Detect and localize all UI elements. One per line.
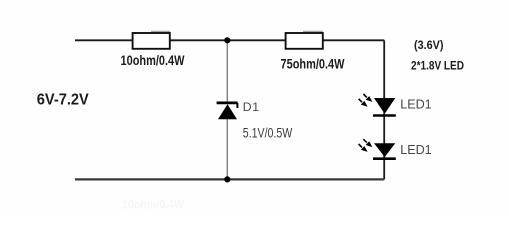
svg-text:LED1: LED1 [400, 143, 432, 157]
svg-text:6V-7.2V: 6V-7.2V [37, 92, 89, 109]
LED LED1 lower [359, 139, 396, 159]
label 6V-7.2V [37, 92, 89, 109]
ghost label 10ohm/0.4W (faint artifact) [122, 198, 185, 212]
zener diode D1 [217, 103, 238, 119]
resistor R2 75ohm [286, 32, 323, 49]
label 2*1.8V LED [411, 59, 464, 73]
label (3.6V) [414, 38, 444, 52]
svg-text:(3.6V): (3.6V) [414, 38, 444, 52]
label LED1 upper [400, 98, 432, 112]
wire right branch [383, 40, 385, 179]
svg-text:LED1: LED1 [400, 98, 432, 112]
LED LED1 upper [359, 94, 396, 116]
wire middle branch upper [226, 40, 228, 102]
svg-text:5.1V/0.5W: 5.1V/0.5W [243, 126, 293, 141]
label 5.1V/0.5W [243, 126, 293, 141]
label D1 [243, 100, 260, 114]
node junction bottom [224, 176, 230, 182]
svg-text:D1: D1 [243, 100, 260, 114]
label 75ohm/0.4W [281, 57, 345, 72]
node junction top [224, 37, 230, 43]
label LED1 lower [400, 143, 432, 157]
svg-text:2*1.8V LED: 2*1.8V LED [411, 59, 464, 73]
wire bottom rail [75, 178, 384, 180]
label 10ohm/0.4W [121, 53, 185, 68]
wire top rail [75, 39, 384, 41]
svg-text:10ohm/0.4W: 10ohm/0.4W [121, 53, 185, 68]
svg-text:10ohm/0.4W: 10ohm/0.4W [122, 198, 185, 212]
svg-text:75ohm/0.4W: 75ohm/0.4W [281, 57, 345, 72]
resistor R1 10ohm [133, 32, 170, 49]
wire middle branch lower [226, 119, 228, 180]
